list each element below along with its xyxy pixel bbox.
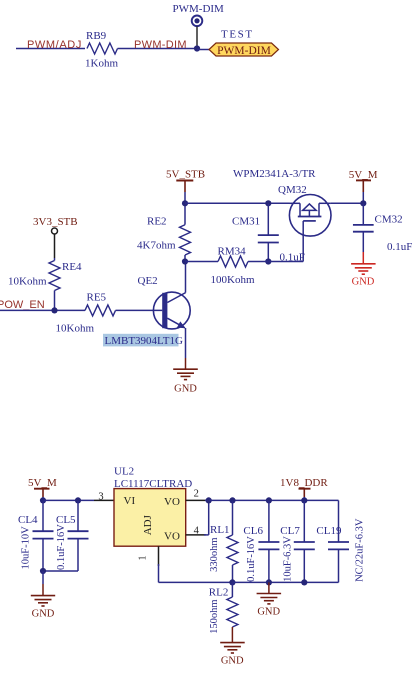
wire RB9 to node PWM-DIM [118,48,198,50]
resistor RM34 100Kohm [211,246,255,287]
svg-text:GND: GND [32,608,55,619]
wire top rail 5V_STB to QM32 [185,202,290,204]
node CL7 bottom junction [301,579,307,585]
regulator UL2 LC1117CLTRAD [114,465,192,546]
net label POW_EN [0,299,45,311]
wire QM32 drain to 5V_M [331,202,363,204]
node 5V_STB junction [182,200,188,206]
test point PWM-DIM [173,3,225,26]
resistor RL2 150ohm [209,582,238,634]
svg-text:RE5: RE5 [87,292,107,304]
wire CM31 node to QM32 gate [268,236,303,262]
svg-text:GND: GND [174,384,197,395]
svg-text:PWM-DIM: PWM-DIM [134,39,187,51]
svg-text:100Kohm: 100Kohm [211,274,255,286]
svg-text:CL4: CL4 [18,514,38,526]
power 1V8_DDR [280,477,328,497]
resistor RE2 4K7ohm [137,216,191,255]
pin 2 (VO) wire [186,489,209,501]
wire RE2 node to RM34 [185,261,218,263]
node RM34/CM31 junction [265,258,271,264]
wire output rail [209,499,339,501]
wire 5V_M stem bottom [42,497,44,500]
wire POW_EN net [0,309,85,311]
svg-text:330ohm: 330ohm [209,537,220,571]
svg-text:GND: GND [257,606,280,617]
capacitor CM31 0.1uF [232,203,305,263]
wire RM34 to CM31 node [248,261,268,263]
ground below CM32 [351,252,376,287]
wire test point stem [196,27,198,49]
svg-text:1: 1 [138,556,149,561]
ground below CL6 [257,582,282,617]
svg-text:POW_EN: POW_EN [0,299,45,311]
svg-text:5V_M: 5V_M [28,477,57,489]
ground below CL4 [31,571,55,619]
svg-text:LMBT3904LT1G: LMBT3904LT1G [105,335,183,347]
svg-text:VI: VI [124,495,136,507]
svg-text:CM31: CM31 [232,215,260,227]
node CL5 top junction [75,497,81,503]
power 3V3_STB terminal [33,216,78,234]
wire RE5 to QE2 base [116,309,163,311]
wire input rail to UL2 pin3 [43,499,114,501]
svg-text:TEST: TEST [221,29,254,41]
svg-text:10Kohm: 10Kohm [8,275,47,287]
mosfet QM32 WPM2341A-3/TR [233,168,331,236]
svg-text:GND: GND [352,276,375,287]
svg-text:UL2: UL2 [114,465,134,477]
svg-text:PWM-DIM: PWM-DIM [173,3,225,15]
power 5V_STB [166,169,205,193]
node RL1/RL2/ADJ junction [229,579,235,585]
svg-text:4K7ohm: 4K7ohm [137,240,176,252]
node 5V_M bottom junction [40,497,46,503]
wire RE4 to POW_EN node [54,291,56,311]
wire bottom rail [232,581,338,583]
svg-text:RE2: RE2 [147,216,167,228]
svg-text:0.1uF-16V: 0.1uF-16V [246,536,257,582]
capacitor CL6 0.1uF-16V [243,500,279,582]
svg-text:1V8_DDR: 1V8_DDR [280,477,328,489]
power 5V_M (top) [349,169,378,192]
svg-text:10Kohm: 10Kohm [56,322,95,334]
ground below QE2 [173,358,198,395]
svg-text:150ohm: 150ohm [209,599,220,633]
capacitor CL4 10uF-10V [18,500,54,571]
capacitor CL7 10uF-6.3V [280,500,315,582]
node CL7 top junction [301,497,307,503]
net label PWM-DIM [134,39,187,51]
svg-text:3V3_STB: 3V3_STB [33,216,78,228]
svg-text:VO: VO [164,496,180,508]
node 5V_M junction [360,200,366,206]
svg-text:NC/22uF-6.3V: NC/22uF-6.3V [355,518,366,582]
wire 5V_STB node to RE2 [184,203,186,224]
capacitor CL19 NC/22uF-6.3V [316,500,365,582]
capacitor CL5 0.1uF-16V [43,500,89,571]
node POW_EN junction [51,307,57,313]
svg-text:VO: VO [164,531,180,543]
svg-text:RL1: RL1 [210,524,230,536]
svg-text:3: 3 [98,492,103,503]
svg-text:10uF-10V: 10uF-10V [21,526,32,570]
pin 1 (ADJ) wire [138,546,233,582]
node pin4 junction [206,497,212,503]
power 5V_M (bottom) [28,477,57,497]
svg-text:2: 2 [194,489,199,500]
node CL4 bottom junction [40,568,46,574]
capacitor CM32 0.1uF [353,203,412,253]
node CL6 top junction [266,497,272,503]
svg-text:1Kohm: 1Kohm [85,58,118,70]
svg-text:QE2: QE2 [138,275,158,287]
wire PWM/ADJ net segment [16,48,85,50]
pin 3 (VI) [98,492,103,503]
svg-text:RM34: RM34 [218,246,247,258]
pin 4 (VO) wire [186,500,209,536]
svg-text:PWM/ADJ: PWM/ADJ [27,39,82,51]
svg-text:WPM2341A-3/TR: WPM2341A-3/TR [233,168,316,180]
wire 1V8_DDR stem [303,497,305,500]
transistor QE2 LMBT3904LT1G [103,275,190,347]
svg-text:CM32: CM32 [375,214,403,226]
node CM31 top junction [265,200,271,206]
ground below RL2 [220,627,245,667]
port PWM-DIM (TEST) [209,29,279,58]
node CL6 bottom junction [266,579,272,585]
wire RE2 to RM34 node [184,255,186,262]
wire QE2 collector up [185,262,187,293]
svg-text:QM32: QM32 [278,184,307,196]
svg-text:GND: GND [221,656,244,667]
resistor RE4 10Kohm [8,261,82,291]
svg-text:CL6: CL6 [243,525,263,537]
svg-text:RB9: RB9 [86,30,107,42]
resistor RE5 10Kohm [56,292,116,335]
svg-text:0.1uF-16V: 0.1uF-16V [56,524,67,570]
node RL1 top junction [229,497,235,503]
wire node to port [197,49,209,51]
wire 5V_STB stem [184,192,186,203]
net label PWM/ADJ [27,39,82,51]
svg-text:RL2: RL2 [209,586,229,598]
svg-text:CL7: CL7 [280,525,300,537]
node PWM-DIM junction [194,45,200,51]
svg-text:ADJ: ADJ [142,514,154,535]
svg-text:PWM-DIM: PWM-DIM [217,45,271,57]
node RE2/RM34 junction [182,258,188,264]
wire 3V3_STB to RE4 [54,234,56,261]
svg-text:RE4: RE4 [62,261,82,273]
resistor RL1 330ohm [209,500,238,582]
wire 5V_M stem [362,192,364,203]
svg-text:5V_M: 5V_M [349,169,378,181]
svg-text:10uF-6.3V: 10uF-6.3V [283,536,294,582]
resistor RB9 1Kohm [85,30,118,70]
svg-text:5V_STB: 5V_STB [166,169,205,181]
svg-text:0.1uF: 0.1uF [387,241,412,253]
wire QE2 emitter down [185,328,187,358]
